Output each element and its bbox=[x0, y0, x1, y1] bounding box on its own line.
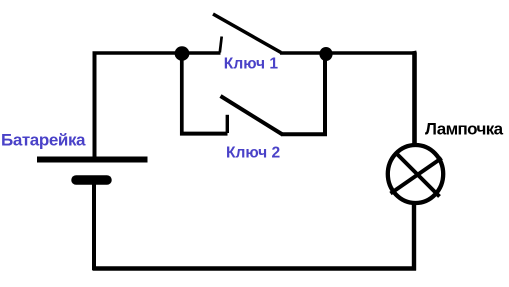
svg-text:Батарейка: Батарейка bbox=[1, 131, 86, 150]
wire switch2 bottom-left horizontal bbox=[180, 132, 228, 136]
svg-text:Ключ 1: Ключ 1 bbox=[224, 56, 279, 73]
wire switch2 bottom-right horizontal bbox=[281, 132, 327, 136]
wire switch2 left vertical from left node bbox=[180, 53, 184, 136]
wire lamp bottom vertical bbox=[412, 204, 416, 271]
battery BT1 short plate bbox=[76, 175, 107, 185]
svg-text:Ключ 2: Ключ 2 bbox=[226, 144, 281, 161]
switch S2 left contact tick bbox=[226, 115, 229, 133]
wire top-right corner to lamp bbox=[412, 51, 417, 144]
svg-text:Лампочка: Лампочка bbox=[425, 119, 504, 138]
wire switch2 right vertical to right node bbox=[323, 52, 327, 136]
node junction dot right bbox=[319, 47, 332, 61]
switch S2 blade (open) bbox=[221, 96, 283, 135]
lamp X stroke 2 bbox=[391, 158, 442, 194]
switch S1 blade (open) bbox=[213, 14, 281, 53]
battery BT1 long plate bbox=[37, 157, 148, 163]
lamp L1 bulb circle bbox=[388, 145, 443, 203]
node junction dot left bbox=[175, 46, 190, 60]
switch S1 left contact tick bbox=[220, 37, 222, 53]
wire bottom horizontal bbox=[93, 266, 417, 271]
wire top horizontal right segment bbox=[280, 51, 414, 55]
lamp X stroke 1 bbox=[396, 153, 440, 197]
wire left vertical (battery + lead) bbox=[93, 52, 97, 158]
wire top horizontal left segment bbox=[93, 51, 221, 55]
wire battery bottom vertical bbox=[92, 184, 96, 270]
